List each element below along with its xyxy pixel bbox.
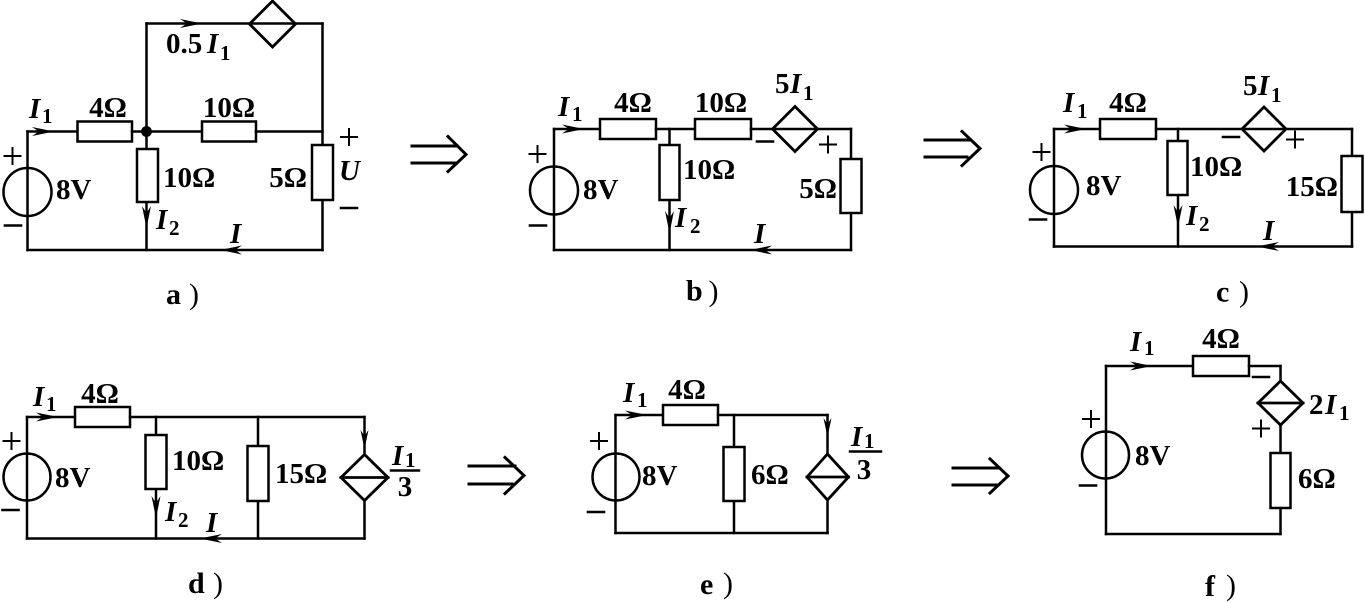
voltage source 8V (b) [530,167,578,215]
svg-text:8V: 8V [642,460,678,492]
voltage source 8V (f) [1082,432,1129,479]
svg-text:e: e [700,568,713,601]
svg-text:8V: 8V [56,174,92,206]
minus sign of source (f) [1080,484,1096,487]
svg-text:0.5: 0.5 [166,28,202,60]
svg-text:4Ω: 4Ω [1109,87,1147,119]
plus sign of source (c) [1034,144,1050,160]
svg-text:I: I [557,91,571,123]
current arrow into source (d) [361,430,369,449]
svg-text:1: 1 [220,41,231,65]
wire a: vertical up to 0.5I1 branch [145,24,148,132]
diamond horizontal diagonal (f) [1258,402,1303,405]
dependent source diamond I1/3 (e) [807,454,849,500]
svg-text:I: I [622,377,636,409]
svg-text:I: I [674,202,688,234]
node dot (a) [141,126,152,137]
svg-text:U: U [339,155,362,187]
wire d: right branch vertical lower [363,501,366,539]
svg-text:d: d [188,567,205,600]
minus sign of 2I1 (f) [1253,376,1269,379]
resistor 15ohm (c) [1342,156,1363,212]
svg-text:10Ω: 10Ω [1190,151,1242,183]
svg-text:1: 1 [1077,99,1088,123]
resistor 4ohm (d) [75,407,130,427]
svg-text:1: 1 [1339,401,1350,425]
svg-text:5: 5 [1243,70,1258,102]
resistor 10ohm horizontal (b) [695,119,751,139]
svg-text:I: I [753,218,767,250]
wire f: right vertical lower [1279,508,1282,534]
svg-text:f: f [1205,570,1216,603]
svg-text:I: I [1262,215,1276,247]
wire a: right vertical branch [321,24,324,251]
svg-text:): ) [189,278,199,311]
svg-text:I: I [206,28,220,60]
resistor 5ohm (a) [312,145,333,200]
svg-text:1: 1 [1271,83,1282,107]
minus sign of source (e) [588,511,604,514]
dependent source diamond 2I1 (f) [1258,381,1303,425]
svg-text:10Ω: 10Ω [172,445,224,477]
current arrow I (a) [221,246,243,255]
svg-text:2: 2 [178,508,189,532]
resistor 4ohm (b) [600,119,656,139]
resistor 10ohm vertical (d) [146,435,167,489]
current arrow I1 (a) [32,127,54,136]
voltage source 8V (e) [593,454,640,501]
svg-text:1: 1 [42,104,53,128]
wire e: top horizontal to right branch [718,414,828,417]
wire a: top branch horizontal [147,22,323,25]
svg-text:c: c [1216,276,1229,309]
wire e: right branch vertical lower [826,500,829,533]
minus sign of U (a) [341,207,357,210]
resistor 6ohm (e) [724,447,745,501]
wire e: top left segment [616,414,664,417]
wire c: top left segment [1054,128,1100,131]
svg-text:8V: 8V [1086,170,1122,202]
svg-text:2: 2 [169,216,180,240]
dependent source diamond 5I1 (c) [1242,107,1286,151]
svg-text:I: I [391,440,405,472]
minus sign of source (b) [530,224,546,227]
svg-text:8V: 8V [55,462,91,494]
plus sign of source (f) [1083,411,1099,427]
wire a: middle vertical branch with 10ohm [145,132,148,251]
current arrow I1 (f) [1130,362,1152,371]
current arrow I2 (a) [142,206,151,228]
current arrow I2 (b) [665,211,674,233]
svg-text:10Ω: 10Ω [203,92,255,124]
minus sign of 5I1 (b) [757,140,773,143]
svg-text:6Ω: 6Ω [1298,463,1336,495]
svg-text:I: I [205,507,219,539]
wire d: top horizontal to right branch [130,416,365,419]
wire d: bottom horizontal [27,537,365,540]
wire b: middle vertical branch [668,129,671,250]
svg-text:I: I [789,68,803,100]
svg-text:6Ω: 6Ω [751,459,789,491]
voltage source 8V (a) [4,168,52,216]
diamond horizontal diagonal (e) [807,476,849,479]
wire c: top segment through diamond to right corner [1156,128,1352,131]
svg-text:I: I [28,93,42,125]
svg-text:4Ω: 4Ω [1202,323,1240,355]
svg-text:I: I [1129,326,1143,358]
current arrow 0.5I1 (a) [180,19,202,28]
svg-text:1: 1 [1144,336,1155,360]
minus sign of source (a) [5,224,21,227]
minus sign of source (c) [1030,218,1046,221]
svg-text:): ) [1226,569,1236,602]
wire b: bottom horizontal [554,249,851,252]
plus sign of U (a) [341,129,357,145]
resistor 4ohm (f) [1193,356,1249,376]
resistor 5ohm (b) [841,159,862,213]
wire e: right branch vertical upper [826,415,829,454]
svg-text:): ) [723,567,733,600]
svg-text:): ) [1239,276,1249,309]
svg-text:4Ω: 4Ω [614,87,652,119]
resistor 10ohm vertical (c) [1168,141,1188,195]
svg-text:): ) [709,275,719,308]
wire a: bottom horizontal [28,249,323,252]
wire f: top right segment to corner [1249,365,1281,368]
wire f: bottom horizontal [1106,533,1281,536]
wire d: middle vertical branch [155,417,158,539]
current arrow I2 (d) [152,496,161,518]
wire b: top left segment [554,128,600,131]
wire c: right vertical branch [1351,129,1354,247]
diamond horizontal diagonal (d) [341,476,388,479]
current arrow I2 (c) [1174,205,1183,227]
resistor 4ohm (c) [1100,119,1156,139]
svg-text:1: 1 [405,448,416,472]
plus sign of source (b) [530,146,546,162]
wire f: right vertical upper [1279,366,1282,381]
svg-text:10Ω: 10Ω [683,154,735,186]
current arrow I (c) [1257,242,1279,251]
svg-text:2: 2 [690,214,701,238]
wire f: right vertical middle [1279,425,1282,453]
wire c: bottom horizontal [1054,245,1352,248]
svg-text:4Ω: 4Ω [89,92,127,124]
wire a: left vertical branch [26,132,29,251]
current arrow I1 (b) [562,125,584,134]
svg-text:): ) [213,567,223,600]
svg-text:1: 1 [46,392,57,416]
wire a: segment 10ohm to right [256,130,323,133]
wire d: left vertical branch [26,417,29,539]
resistor 4ohm (a) [78,122,133,142]
wire e: left vertical branch [614,415,617,533]
current arrow I (b) [750,246,772,255]
resistor 10ohm horizontal (a) [202,122,256,142]
svg-text:1: 1 [864,429,875,453]
svg-text:b: b [686,275,703,308]
wire b: left vertical branch [553,129,556,250]
svg-text:I: I [155,204,169,236]
svg-text:10Ω: 10Ω [163,162,215,194]
voltage source 8V (c) [1030,166,1078,214]
minus sign of source (d) [3,509,19,512]
resistor 15ohm (d) [248,446,269,501]
svg-text:I: I [32,381,46,413]
svg-text:5Ω: 5Ω [269,162,307,194]
current arrow I1 (d) [36,413,58,422]
svg-text:4Ω: 4Ω [668,374,706,406]
resistor 4ohm (e) [663,405,718,425]
wire e: bottom horizontal [616,532,828,535]
svg-text:10Ω: 10Ω [695,87,747,119]
wire d: right branch vertical upper [363,417,366,455]
svg-text:I: I [229,218,243,250]
wire c: middle vertical branch [1177,129,1180,247]
svg-text:8V: 8V [583,174,619,206]
svg-text:3: 3 [857,454,872,486]
svg-text:4Ω: 4Ω [81,378,119,410]
resistor 6ohm (f) [1271,453,1291,508]
dependent source diamond 0.5I1 (a) [250,1,296,47]
svg-text:I: I [1062,87,1076,119]
svg-text:5: 5 [775,68,790,100]
svg-text:5Ω: 5Ω [799,173,837,205]
wire f: left vertical branch [1105,366,1108,534]
current arrow I1 (c) [1064,125,1086,134]
svg-text:I: I [1324,389,1338,421]
minus sign of 5I1 (c) [1223,136,1239,139]
wire d: top left segment [27,416,75,419]
svg-text:1: 1 [572,102,583,126]
dependent source diamond I1/3 (d) [341,455,388,501]
svg-text:I: I [1257,70,1271,102]
plus sign of 2I1 (f) [1253,421,1269,437]
plus sign of 5I1 (b) [820,137,836,153]
svg-text:I: I [850,421,864,453]
svg-text:8V: 8V [1135,440,1171,472]
wire b: segment through diamond to right corner [751,128,851,131]
svg-text:2: 2 [1199,212,1210,236]
svg-text:I: I [1185,200,1199,232]
resistor 10ohm vertical (a) [137,149,158,202]
svg-text:2: 2 [1309,389,1324,421]
wire b: right vertical branch [850,129,853,250]
current arrow into source (e) [824,418,832,437]
wire a: top left segment [28,130,78,133]
wire f: top horizontal [1106,365,1193,368]
svg-text:I: I [164,496,178,528]
plus sign of source (e) [591,433,607,449]
svg-text:a: a [166,278,181,311]
svg-text:1: 1 [637,388,648,412]
svg-text:15Ω: 15Ω [1286,171,1338,203]
wire c: left vertical branch [1053,129,1056,247]
voltage source 8V (d) [4,454,51,501]
svg-text:3: 3 [398,471,413,503]
wire d: 15ohm vertical branch [257,417,260,539]
current arrow I (d) [200,534,222,543]
wire b: segment 4ohm to 10ohm [656,128,695,131]
resistor 10ohm vertical (b) [660,145,680,200]
wire e: middle vertical branch [733,415,736,533]
wire a: segment 4ohm to 10ohm [132,130,202,133]
dependent source diamond 5I1 (b) [773,107,818,152]
plus sign of source (a) [5,148,21,164]
svg-text:15Ω: 15Ω [275,458,327,490]
current arrow I1 (e) [625,411,647,420]
plus sign of source (d) [4,433,20,449]
plus sign of 5I1 (c) [1287,132,1303,148]
svg-text:1: 1 [803,81,814,105]
